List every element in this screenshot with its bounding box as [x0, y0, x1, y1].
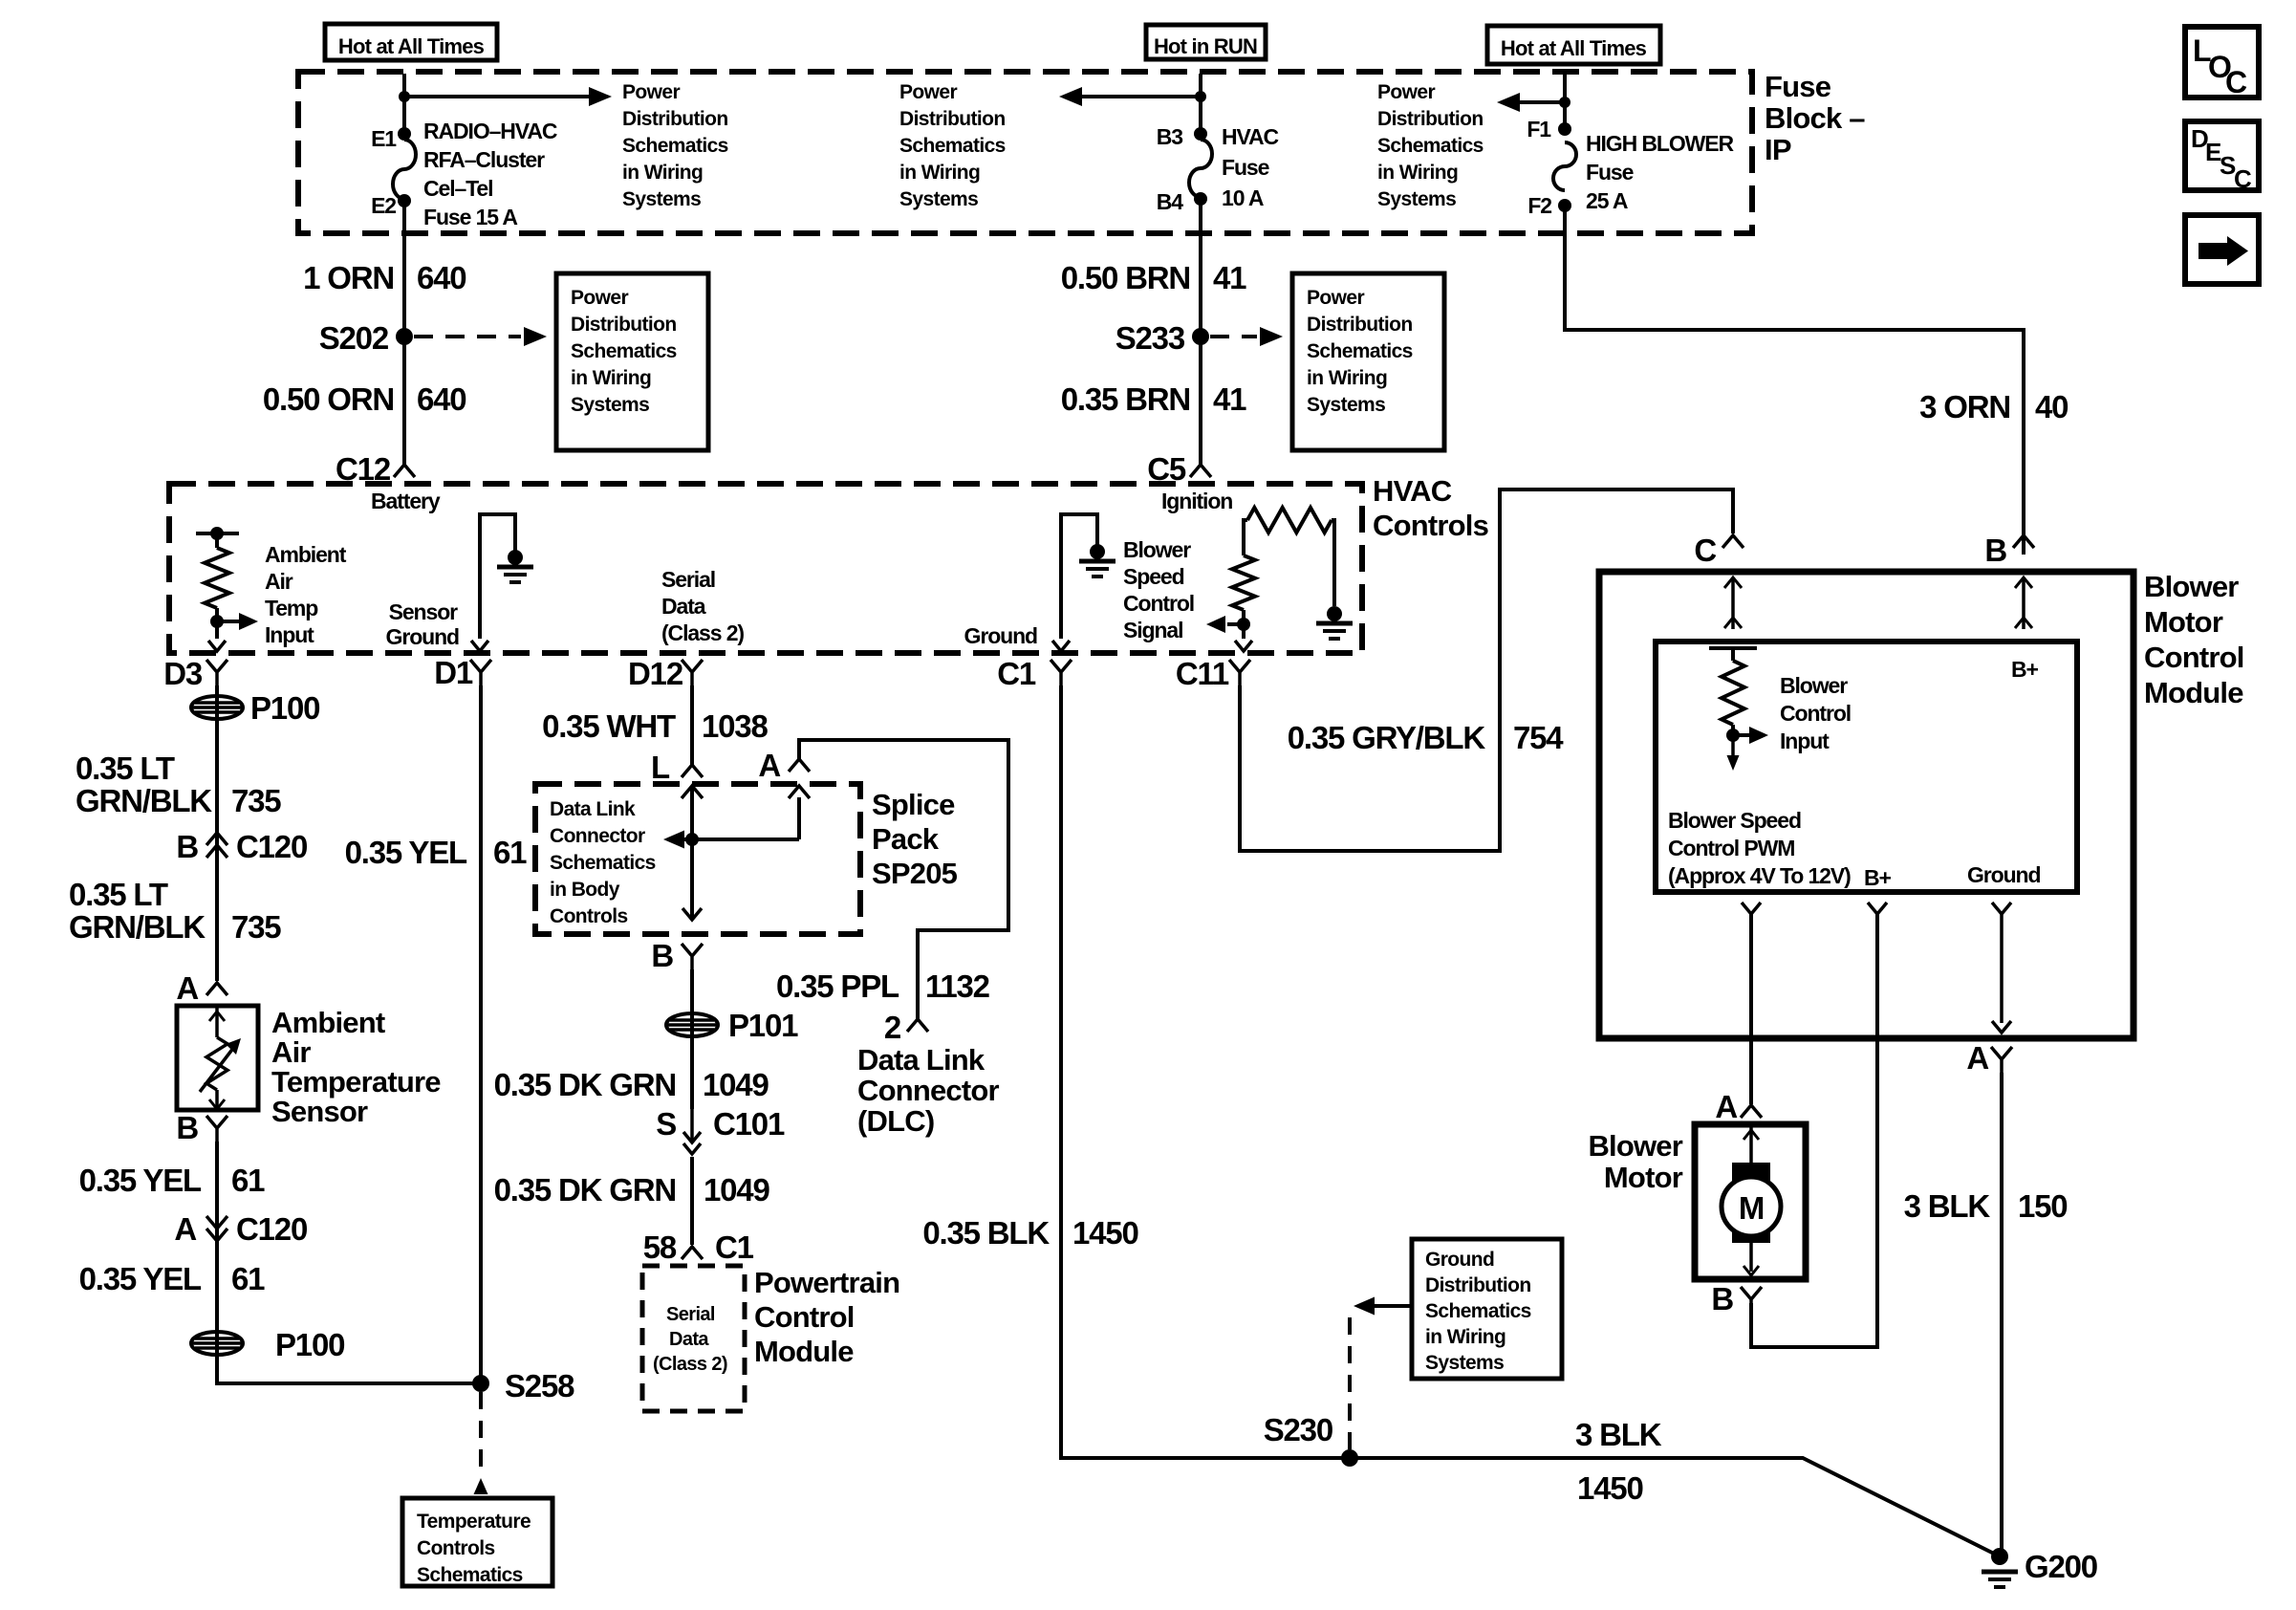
svg-text:Powertrain: Powertrain	[754, 1266, 899, 1299]
chevron L inside SP205	[682, 786, 703, 798]
fuse element HVAC Fuse 10A	[1189, 140, 1212, 197]
svg-text:Control: Control	[1123, 591, 1194, 616]
svg-text:Ignition: Ignition	[1161, 489, 1232, 513]
svg-text:RFA–Cluster: RFA–Cluster	[423, 147, 545, 172]
svg-text:58: 58	[643, 1229, 677, 1265]
wire S230 to G200	[1350, 1458, 2000, 1556]
svg-text:Blower Speed: Blower Speed	[1668, 808, 1801, 833]
arrow ambient temp input	[217, 620, 239, 623]
svg-text:in Wiring: in Wiring	[899, 162, 980, 184]
svg-text:F1: F1	[1527, 117, 1551, 141]
svg-text:Serial: Serial	[661, 567, 715, 592]
node blower speed junction	[1237, 618, 1250, 631]
splice pack SP205 dashed outline	[535, 784, 860, 934]
svg-text:3 BLK: 3 BLK	[1575, 1417, 1662, 1452]
svg-text:Schematics: Schematics	[899, 135, 1006, 157]
svg-text:10 A: 10 A	[1222, 185, 1264, 210]
node hvac ground dot	[1090, 544, 1105, 559]
node battery ground dot	[508, 550, 523, 565]
svg-text:Schematics: Schematics	[550, 852, 656, 874]
wire arrow to Power Distribution (fuse1)	[404, 95, 593, 98]
fuse element F RADIO-HVAC 15A	[393, 140, 416, 199]
svg-text:F2: F2	[1527, 193, 1551, 218]
dashed reference arrow from S233	[1210, 335, 1257, 338]
svg-text:Ground: Ground	[386, 624, 459, 649]
svg-text:Connector: Connector	[857, 1074, 1000, 1107]
svg-text:Sensor: Sensor	[389, 599, 459, 624]
svg-text:640: 640	[417, 381, 466, 417]
svg-text:B4: B4	[1157, 189, 1184, 214]
motor M symbol	[1722, 1177, 1781, 1236]
blower control input resistor	[1709, 646, 1757, 650]
ambient air temp input resistor	[196, 532, 239, 535]
svg-text:E2: E2	[371, 193, 396, 218]
wire D12 to L	[690, 685, 694, 765]
svg-text:C120: C120	[236, 829, 307, 864]
svg-text:C1: C1	[997, 656, 1036, 691]
node junction dot fuse2 arrow	[1195, 91, 1206, 102]
svg-text:in Wiring: in Wiring	[1377, 162, 1458, 184]
svg-text:HVAC: HVAC	[1222, 124, 1279, 149]
wire C11 to module pin C	[1240, 490, 1733, 851]
wire A to G200	[2000, 1073, 2004, 1556]
wire arrow to Power Distribution (fuse2)	[1078, 95, 1201, 98]
arrow blower control input	[1733, 733, 1749, 737]
svg-text:Data Link: Data Link	[857, 1043, 986, 1077]
svg-text:SP205: SP205	[872, 857, 958, 890]
svg-text:Distribution: Distribution	[622, 108, 728, 130]
ambient air temperature sensor box	[177, 1006, 258, 1110]
svg-text:Connector: Connector	[550, 825, 645, 847]
reference box Temperature Controls Schematics	[402, 1498, 552, 1586]
grommet P101	[666, 1013, 718, 1036]
svg-text:Systems: Systems	[622, 188, 701, 210]
svg-text:Ground: Ground	[964, 623, 1037, 648]
svg-text:Blower: Blower	[1123, 537, 1191, 562]
svg-text:B: B	[1984, 533, 2006, 568]
svg-text:1450: 1450	[1072, 1215, 1138, 1251]
wire from F2 to blower module B pin	[1565, 206, 2024, 555]
svg-text:Temperature: Temperature	[271, 1065, 441, 1099]
svg-text:Air: Air	[265, 569, 293, 594]
svg-text:Data: Data	[661, 594, 706, 619]
wire battery feed with ground	[480, 514, 515, 639]
svg-text:S: S	[656, 1106, 676, 1142]
svg-text:0.35 YEL: 0.35 YEL	[79, 1163, 202, 1198]
reference box Power Distribution Schematics (left)	[556, 273, 708, 450]
ambient sensor internal thermistor	[215, 1006, 219, 1037]
svg-text:Blower: Blower	[1780, 673, 1848, 698]
wire sensor ground D1 to S258	[479, 685, 483, 1383]
svg-text:735: 735	[231, 783, 281, 818]
svg-text:0.50 BRN: 0.50 BRN	[1061, 260, 1190, 295]
svg-text:B3: B3	[1157, 124, 1183, 149]
svg-text:2: 2	[884, 1010, 901, 1045]
arrow battery wire exit	[471, 641, 488, 651]
wire fuse2 lower vertical to C5	[1199, 199, 1202, 465]
wire fuse1 lower vertical to C12	[402, 201, 406, 465]
wire fuse2 upper vertical	[1199, 74, 1202, 134]
svg-text:3 BLK: 3 BLK	[1904, 1188, 1991, 1224]
svg-text:Hot at All Times: Hot at All Times	[338, 34, 485, 58]
svg-text:in Wiring: in Wiring	[1425, 1326, 1505, 1348]
svg-text:B: B	[1711, 1281, 1733, 1316]
svg-text:Power: Power	[571, 287, 628, 309]
node junction dot fuse3 arrow	[1559, 97, 1570, 108]
svg-text:S233: S233	[1116, 320, 1185, 356]
svg-text:640: 640	[417, 260, 466, 295]
svg-text:61: 61	[493, 835, 527, 870]
svg-text:A: A	[758, 748, 780, 783]
blower speed control resistor network	[1244, 520, 1247, 555]
svg-text:Input: Input	[1780, 729, 1830, 753]
svg-text:Speed: Speed	[1123, 564, 1184, 589]
svg-text:S202: S202	[319, 320, 389, 356]
svg-text:Motor: Motor	[2144, 605, 2223, 639]
svg-text:A: A	[1715, 1089, 1737, 1124]
svg-text:S258: S258	[505, 1368, 574, 1403]
fuse B3-B4 HVAC terminals	[1194, 127, 1207, 141]
svg-text:Control PWM: Control PWM	[1668, 836, 1794, 860]
svg-text:C1: C1	[715, 1229, 754, 1265]
fuse element HIGH BLOWER Fuse 25A	[1553, 142, 1576, 190]
svg-text:Power: Power	[1377, 81, 1435, 103]
header box Hot at All Times (right)	[1487, 26, 1660, 64]
svg-text:Module: Module	[754, 1335, 854, 1368]
svg-text:Distribution: Distribution	[571, 314, 677, 336]
svg-text:Ambient: Ambient	[265, 542, 347, 567]
wire ambient temp to D3	[215, 621, 219, 639]
svg-text:D1: D1	[434, 655, 473, 690]
svg-text:Systems: Systems	[899, 188, 978, 210]
ground symbol battery	[497, 567, 533, 582]
svg-text:B+: B+	[2011, 657, 2039, 682]
wire hvac ground feed	[1061, 514, 1097, 639]
svg-text:P101: P101	[728, 1008, 798, 1043]
svg-text:Pack: Pack	[872, 822, 940, 856]
arrow blower speed signal	[1227, 622, 1244, 626]
svg-text:Motor: Motor	[1604, 1161, 1683, 1194]
svg-text:A: A	[176, 970, 198, 1006]
svg-text:B: B	[651, 938, 673, 973]
svg-text:1049: 1049	[703, 1067, 769, 1102]
wire arrow to Power Distribution (fuse3)	[1518, 100, 1565, 104]
svg-text:Sensor: Sensor	[271, 1095, 368, 1128]
svg-text:Blower: Blower	[2144, 570, 2239, 603]
svg-text:0.35 DK GRN: 0.35 DK GRN	[494, 1067, 676, 1102]
svg-text:Control: Control	[2144, 641, 2244, 674]
pin C pass-through	[1731, 577, 1735, 629]
svg-text:D12: D12	[628, 656, 683, 691]
wire module pin2 B+ to motor B	[1751, 914, 1877, 1347]
svg-text:S230: S230	[1264, 1412, 1332, 1447]
LOC legend box	[2185, 27, 2259, 98]
svg-text:Fuse: Fuse	[1765, 70, 1831, 103]
svg-text:Controls: Controls	[417, 1537, 495, 1559]
svg-text:1038: 1038	[702, 708, 768, 744]
svg-text:0.50 ORN: 0.50 ORN	[263, 381, 394, 417]
dashed reference arrow from S202	[414, 335, 521, 338]
svg-text:Fuse 15 A: Fuse 15 A	[423, 205, 517, 229]
module pin 2 chevron	[1868, 903, 1887, 914]
dashed reference from S230 to ground distribution	[1348, 1306, 1352, 1449]
svg-text:Blower: Blower	[1588, 1129, 1682, 1163]
powertrain control module dashed outline	[642, 1266, 745, 1411]
svg-text:Battery: Battery	[371, 489, 441, 513]
svg-text:Power: Power	[899, 81, 957, 103]
svg-text:61: 61	[231, 1163, 265, 1198]
grommet P100 upper	[191, 696, 243, 719]
svg-text:(DLC): (DLC)	[857, 1104, 934, 1138]
fuse E1-E2 RADIO-HVAC terminals	[398, 127, 411, 141]
svg-text:Signal: Signal	[1123, 618, 1182, 642]
svg-text:0.35 BRN: 0.35 BRN	[1061, 381, 1190, 417]
legend arrow box	[2185, 215, 2259, 284]
arrow data link connector reference	[684, 838, 799, 841]
svg-text:Distribution: Distribution	[899, 108, 1006, 130]
svg-text:Module: Module	[2144, 676, 2243, 709]
svg-text:3 ORN: 3 ORN	[1919, 389, 2010, 424]
svg-text:Distribution: Distribution	[1307, 314, 1413, 336]
ground symbol ignition	[1316, 623, 1353, 639]
svg-text:Distribution: Distribution	[1425, 1274, 1531, 1296]
dashed reference to temperature controls	[479, 1392, 483, 1477]
module pin 1 chevron	[1742, 903, 1761, 914]
svg-text:Block –: Block –	[1765, 101, 1865, 135]
svg-text:HVAC: HVAC	[1373, 474, 1452, 508]
svg-text:61: 61	[231, 1261, 265, 1296]
svg-text:(Class 2): (Class 2)	[653, 1354, 727, 1375]
svg-text:M: M	[1739, 1190, 1764, 1226]
svg-text:in Wiring: in Wiring	[622, 162, 703, 184]
svg-text:Ambient: Ambient	[271, 1006, 385, 1039]
svg-text:25 A: 25 A	[1586, 188, 1628, 213]
svg-text:Fuse: Fuse	[1586, 160, 1634, 185]
splice S233	[1192, 328, 1209, 345]
header box Hot in RUN	[1146, 25, 1266, 59]
svg-text:P100: P100	[250, 690, 319, 726]
wire sensor B to S258	[217, 1142, 481, 1383]
wire fuse3 upper vertical	[1563, 74, 1567, 129]
svg-text:Systems: Systems	[1425, 1352, 1504, 1374]
grommet P100 lower	[191, 1332, 243, 1355]
svg-text:0.35 YEL: 0.35 YEL	[79, 1261, 202, 1296]
svg-text:B: B	[176, 1110, 198, 1145]
svg-text:Input: Input	[265, 622, 314, 647]
svg-text:A: A	[1966, 1040, 1988, 1076]
svg-text:Distribution: Distribution	[1377, 108, 1484, 130]
wire C1 ground to S230	[1061, 685, 1350, 1458]
reference box Power Distribution Schematics (middle)	[1292, 273, 1444, 450]
svg-text:0.35 DK GRN: 0.35 DK GRN	[494, 1172, 676, 1207]
svg-text:Control: Control	[754, 1300, 855, 1334]
module pin 3 chevron	[1992, 903, 2011, 914]
svg-text:(Class 2): (Class 2)	[661, 620, 744, 645]
splice S258	[472, 1375, 489, 1392]
node blower control input junction	[1726, 729, 1740, 742]
svg-text:Fuse: Fuse	[1222, 155, 1269, 180]
svg-text:150: 150	[2018, 1188, 2067, 1224]
wire SP205 B to P101	[690, 969, 694, 1109]
svg-text:B: B	[176, 829, 198, 864]
svg-text:40: 40	[2035, 389, 2068, 424]
svg-text:C: C	[2225, 65, 2247, 99]
svg-text:in Wiring: in Wiring	[1307, 367, 1387, 389]
svg-text:0.35 BLK: 0.35 BLK	[922, 1215, 1050, 1251]
HVAC Controls dashed outline	[169, 484, 1362, 653]
svg-text:Splice: Splice	[872, 788, 955, 821]
svg-text:735: 735	[231, 909, 281, 945]
svg-text:Controls: Controls	[550, 905, 628, 927]
svg-text:P100: P100	[275, 1327, 344, 1362]
svg-text:C: C	[2234, 164, 2252, 193]
svg-text:Data Link: Data Link	[550, 798, 636, 820]
svg-text:754: 754	[1513, 720, 1564, 755]
svg-text:Schematics: Schematics	[571, 340, 677, 362]
wire A of SP205 to DLC pin 2	[799, 740, 1008, 1019]
blower motor internals	[1749, 1124, 1753, 1163]
svg-text:Schematics: Schematics	[1425, 1300, 1531, 1322]
svg-text:D3: D3	[163, 656, 203, 691]
wire module pin1 to blower motor A	[1749, 914, 1753, 1104]
svg-text:Temperature: Temperature	[417, 1511, 531, 1533]
svg-text:C101: C101	[713, 1106, 785, 1142]
chevron A inside SP205	[789, 786, 810, 798]
svg-text:Systems: Systems	[1377, 188, 1456, 210]
svg-text:L: L	[651, 750, 670, 785]
svg-text:0.35 LT: 0.35 LT	[69, 877, 168, 912]
svg-text:Ground: Ground	[1425, 1249, 1494, 1271]
wire A branch inside SP205	[797, 797, 801, 839]
svg-text:Control: Control	[1780, 701, 1851, 726]
reference box Ground Distribution Schematics in Wiring Systems	[1412, 1239, 1562, 1379]
svg-text:Data: Data	[669, 1329, 709, 1350]
svg-text:Schematics: Schematics	[1377, 135, 1484, 157]
svg-text:0.35 YEL: 0.35 YEL	[345, 835, 467, 870]
svg-text:Power: Power	[622, 81, 680, 103]
node junction dot fuse1 arrow	[399, 91, 410, 102]
Fuse Block - IP dashed outline	[298, 72, 1752, 233]
splice S202	[396, 328, 413, 345]
wire module ground pin to A	[2000, 914, 2004, 1023]
svg-text:C11: C11	[1176, 656, 1229, 691]
svg-text:41: 41	[1213, 381, 1246, 417]
header box Hot at All Times (left)	[325, 24, 497, 60]
svg-text:(Approx 4V To 12V): (Approx 4V To 12V)	[1668, 863, 1851, 888]
arrow blower control input down	[1731, 735, 1735, 762]
svg-text:E1: E1	[371, 126, 397, 151]
svg-text:1049: 1049	[704, 1172, 769, 1207]
ground G200	[1991, 1548, 2008, 1565]
DESC legend box	[2185, 121, 2259, 190]
svg-text:Air: Air	[271, 1035, 311, 1069]
svg-text:Cel–Tel: Cel–Tel	[423, 176, 492, 201]
svg-text:in Wiring: in Wiring	[571, 367, 651, 389]
svg-text:Systems: Systems	[1307, 394, 1385, 416]
svg-text:G200: G200	[2025, 1549, 2097, 1584]
node ambient temp junction	[210, 615, 224, 628]
ground symbol hvac	[1079, 561, 1116, 577]
svg-text:0.35 WHT: 0.35 WHT	[542, 708, 676, 744]
wire serial data inside SP205	[690, 786, 694, 918]
svg-text:HIGH BLOWER: HIGH BLOWER	[1586, 131, 1734, 156]
svg-text:Ground: Ground	[1967, 862, 2040, 887]
svg-text:Schematics: Schematics	[1307, 340, 1413, 362]
svg-text:Controls: Controls	[1373, 509, 1488, 542]
svg-text:in Body: in Body	[550, 879, 620, 901]
svg-text:C: C	[1694, 533, 1716, 568]
splice S230	[1341, 1449, 1358, 1467]
svg-text:0.35 GRY/BLK: 0.35 GRY/BLK	[1288, 720, 1486, 755]
svg-text:Systems: Systems	[571, 394, 649, 416]
svg-text:0.35 LT: 0.35 LT	[76, 751, 175, 786]
wire fuse1 upper vertical	[402, 74, 406, 134]
svg-text:Temp: Temp	[265, 596, 318, 620]
svg-text:Hot at All Times: Hot at All Times	[1501, 36, 1647, 60]
svg-text:B+: B+	[1864, 865, 1892, 890]
svg-text:Serial: Serial	[666, 1304, 715, 1325]
svg-text:Schematics: Schematics	[622, 135, 728, 157]
svg-text:Power: Power	[1307, 287, 1364, 309]
svg-text:GRN/BLK: GRN/BLK	[69, 909, 206, 945]
svg-text:Hot in RUN: Hot in RUN	[1154, 34, 1257, 58]
wire D3 to sensor	[215, 685, 219, 981]
svg-text:C120: C120	[236, 1211, 307, 1247]
svg-text:1132: 1132	[925, 968, 990, 1004]
svg-text:41: 41	[1213, 260, 1246, 295]
blower speed control PWM box	[1656, 642, 2077, 892]
fuse F1-F2 HIGH BLOWER terminals	[1558, 122, 1571, 136]
svg-text:1 ORN: 1 ORN	[303, 260, 394, 295]
svg-text:A: A	[174, 1211, 196, 1247]
arrow hvac ground exit	[1052, 641, 1070, 651]
node ignition ground dot	[1327, 606, 1342, 621]
svg-text:RADIO–HVAC: RADIO–HVAC	[423, 119, 557, 143]
node SP205 junction	[685, 833, 699, 846]
wire blower speed to C11	[1242, 624, 1245, 639]
svg-text:0.35 PPL: 0.35 PPL	[776, 968, 899, 1004]
pin B pass-through	[2022, 577, 2025, 629]
blower motor box	[1695, 1124, 1806, 1279]
svg-text:GRN/BLK: GRN/BLK	[76, 783, 212, 818]
blower motor control module box	[1599, 572, 2134, 1038]
svg-text:1450: 1450	[1577, 1470, 1643, 1506]
svg-text:IP: IP	[1765, 133, 1791, 166]
svg-text:Schematics: Schematics	[417, 1564, 523, 1586]
